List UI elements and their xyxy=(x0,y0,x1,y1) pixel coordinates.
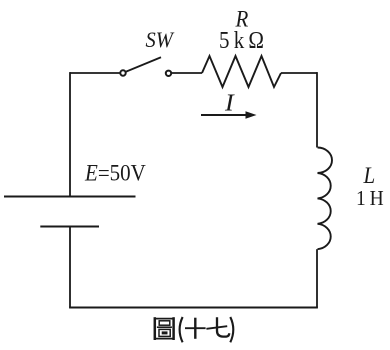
wire right upper xyxy=(316,72,318,147)
label L xyxy=(363,162,376,188)
svg-text:1 H: 1 H xyxy=(356,187,384,210)
label E=50V xyxy=(84,159,146,185)
svg-text:I: I xyxy=(224,91,236,117)
label 5 k Ohm xyxy=(219,27,264,54)
wire left lower (battery to bottom) xyxy=(69,227,71,308)
label R xyxy=(235,6,249,32)
caption glyph TU (figure) xyxy=(154,317,174,340)
caption right paren xyxy=(230,317,233,342)
svg-text:L: L xyxy=(363,162,376,188)
wire left upper (corner to battery) xyxy=(69,72,71,196)
label SW xyxy=(146,27,175,52)
label I xyxy=(224,91,236,117)
label 1 H xyxy=(356,187,384,210)
current arrow I xyxy=(201,111,257,118)
wire top-left segment xyxy=(70,72,120,74)
svg-text:E=50V: E=50V xyxy=(84,159,146,185)
wire resistor-to-corner (top right) xyxy=(281,72,317,74)
wire bottom xyxy=(69,307,318,309)
switch SW xyxy=(120,57,171,76)
battery E : long positive plate xyxy=(4,196,136,198)
inductor L xyxy=(318,148,333,250)
caption left paren xyxy=(180,317,183,342)
wire right lower xyxy=(316,249,318,307)
resistor R xyxy=(202,56,281,87)
caption glyph SHI (ten) xyxy=(185,318,206,339)
svg-text:SW: SW xyxy=(146,27,175,52)
battery E : short negative plate xyxy=(40,225,99,227)
caption glyph QI (seven) xyxy=(206,317,229,336)
svg-text:5 k Ω: 5 k Ω xyxy=(219,27,264,54)
wire switch-to-resistor xyxy=(172,72,202,74)
